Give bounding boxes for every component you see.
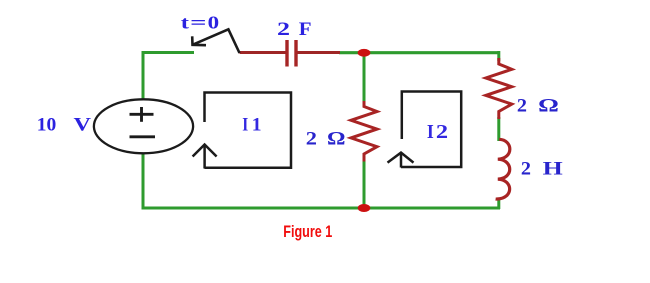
svg-text:Figure 1: Figure 1: [283, 223, 332, 241]
mesh loop I1 box (open rectangle): [205, 93, 292, 168]
inductor L1 2H (right branch, three right-bulging loops): [496, 139, 510, 199]
label: t=0: [181, 13, 220, 33]
svg-text:2: 2: [521, 159, 531, 180]
label: 2 ohm middle: [306, 129, 346, 149]
mesh loop I2 direction arrow: [388, 153, 414, 168]
voltage source VS 10V (ellipse with plus and minus): [94, 99, 193, 153]
wire: top-left horizontal green (source to switch contact): [142, 51, 195, 54]
resistor R2 2 ohm (right branch): [486, 58, 512, 119]
resistor R1 2 ohm (middle branch): [351, 101, 377, 162]
mesh loop I2 box (open rectangle): [401, 92, 461, 168]
wire: left branch vertical, bottom lead of source: [142, 153, 145, 210]
label: 2 ohm right: [517, 95, 559, 116]
label: 2 F: [277, 19, 312, 40]
svg-text:V: V: [74, 115, 92, 135]
wire: right branch lower green stub: [497, 198, 500, 209]
svg-text:Ω: Ω: [327, 129, 346, 149]
wire: middle branch lower green segment: [363, 160, 366, 210]
svg-text:2: 2: [306, 129, 317, 149]
wire: dark red capacitor left lead: [240, 51, 286, 54]
label: I1: [242, 115, 261, 136]
wire: dark red capacitor right lead: [298, 51, 341, 54]
wire: top horizontal green from capacitor to right branch: [339, 51, 500, 54]
svg-text:I: I: [427, 122, 434, 143]
wire: bottom horizontal green rail: [142, 206, 501, 209]
svg-text:H: H: [543, 159, 563, 180]
wire: middle branch upper green segment: [363, 51, 366, 103]
svg-text:2: 2: [277, 19, 290, 40]
svg-text:=: =: [190, 13, 206, 33]
svg-text:2: 2: [517, 95, 527, 116]
capacitor C1 2F plates: [287, 40, 296, 67]
mesh loop I1 direction arrow: [193, 145, 217, 169]
label: 2 H: [521, 159, 563, 180]
wire: right branch green segment between resistor and inductor: [497, 117, 500, 141]
svg-text:t: t: [181, 13, 189, 33]
switch t=0 (black arm with arrowhead): [192, 29, 239, 53]
svg-text:2: 2: [436, 122, 448, 143]
svg-text:Ω: Ω: [538, 95, 559, 116]
svg-text:10: 10: [37, 115, 57, 135]
label: 10 V: [37, 115, 92, 135]
wire: left branch vertical, top lead of source: [142, 51, 145, 100]
node B: bottom junction dot: [358, 204, 371, 212]
svg-text:F: F: [299, 19, 312, 40]
svg-text:I: I: [242, 115, 248, 136]
node A: top junction dot: [358, 49, 371, 57]
label: I2: [427, 122, 448, 143]
svg-text:0: 0: [208, 13, 220, 33]
svg-text:1: 1: [252, 115, 262, 136]
wire: right branch upper green stub: [497, 51, 500, 61]
